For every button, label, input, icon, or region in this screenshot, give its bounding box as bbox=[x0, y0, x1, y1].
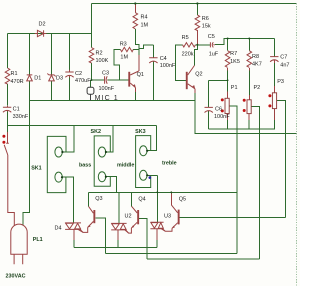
wire Q2 emitter rail bbox=[195, 93, 297, 134]
resistor R1 bbox=[5, 68, 10, 84]
wire SK2 pole1 up bbox=[106, 126, 113, 153]
svg-text:SK1: SK1 bbox=[31, 166, 42, 172]
node SK2 pole1 dot bbox=[105, 151, 107, 153]
wire R1 branch vertical bbox=[7, 34, 9, 69]
node C6 tap junction bbox=[227, 79, 229, 81]
svg-text:R1: R1 bbox=[11, 71, 18, 77]
wire Q3 base run bbox=[95, 218, 105, 254]
svg-text:1: 1 bbox=[114, 95, 118, 102]
capacitor C3 bbox=[105, 76, 108, 83]
diode D1 bbox=[27, 75, 33, 81]
svg-text:4n7: 4n7 bbox=[280, 63, 289, 69]
wire mic drop bbox=[90, 80, 92, 87]
wire SK2 pole2 down bbox=[106, 177, 117, 193]
svg-text:1K5: 1K5 bbox=[230, 59, 240, 65]
wire U2 bottom bbox=[117, 230, 119, 240]
svg-text:C2: C2 bbox=[75, 71, 82, 77]
wire C7 top bbox=[273, 39, 275, 57]
wire D3 branch vertical bbox=[51, 34, 53, 75]
wire C1 to lower rail bbox=[7, 112, 9, 126]
wire C3 to Q1 base bbox=[108, 79, 129, 81]
wire middle base rail bbox=[147, 258, 260, 260]
wire R2 to mic node bbox=[91, 63, 93, 80]
transistor Q1 bbox=[128, 72, 130, 87]
svg-text:SK3: SK3 bbox=[135, 129, 146, 135]
svg-text:U2: U2 bbox=[125, 213, 132, 219]
capacitor C2 bbox=[65, 70, 73, 78]
svg-text:D2: D2 bbox=[39, 22, 46, 28]
wire U3 top from SK3 bbox=[156, 175, 158, 222]
svg-text:P2: P2 bbox=[254, 85, 261, 91]
node R6 junction bbox=[196, 2, 198, 4]
transistor Q2 bbox=[186, 72, 188, 89]
wire left vertical from top rail bbox=[91, 4, 93, 34]
node U3 top junction bbox=[156, 191, 158, 193]
wire triac common rail bbox=[74, 247, 157, 249]
svg-text:PL1: PL1 bbox=[33, 237, 43, 243]
svg-text:R5: R5 bbox=[182, 35, 189, 41]
svg-text:C3: C3 bbox=[102, 70, 109, 76]
wire neutral rail bbox=[8, 125, 157, 127]
svg-text:Q4: Q4 bbox=[138, 197, 145, 203]
node blue dot bbox=[149, 176, 152, 179]
wire C6 bottom to rail bbox=[208, 111, 210, 129]
svg-text:R8: R8 bbox=[252, 54, 259, 60]
svg-text:330nF: 330nF bbox=[13, 114, 29, 120]
capacitor C5 bbox=[210, 42, 215, 47]
wire P3 wiper bbox=[277, 101, 286, 218]
svg-text:R3: R3 bbox=[120, 41, 127, 47]
wire Q4 collector up bbox=[131, 192, 133, 206]
wire U2 top bbox=[118, 192, 120, 223]
wire R4 top bbox=[134, 4, 136, 13]
wire SK3 pole2 down bbox=[147, 174, 157, 176]
wire R7 bottom to P1 bbox=[227, 68, 229, 70]
wire C2 to ground rail bbox=[69, 78, 71, 101]
wire Q4 base run bbox=[139, 218, 147, 259]
switch SK1 pole circles bbox=[55, 147, 62, 157]
wire R8 bottom to P2 bbox=[248, 68, 250, 70]
svg-text:D1: D1 bbox=[34, 75, 41, 81]
wire C6 top bbox=[208, 80, 210, 107]
wire mic node to C3 bbox=[92, 79, 105, 81]
svg-text:Q1: Q1 bbox=[137, 72, 144, 78]
switch SK3 pole circles bbox=[140, 146, 147, 156]
wire C5 out to filter rail bbox=[215, 39, 274, 45]
svg-text:middle: middle bbox=[117, 162, 134, 168]
svg-text:C4: C4 bbox=[160, 56, 167, 62]
svg-text:C1: C1 bbox=[13, 107, 20, 113]
triac U3 bbox=[150, 222, 165, 231]
svg-text:230VAC: 230VAC bbox=[6, 274, 26, 280]
svg-text:P1: P1 bbox=[231, 85, 238, 91]
triac U2 bbox=[111, 223, 128, 233]
wire pot bottom rail bbox=[209, 128, 275, 130]
node SK3 pole2 dot bbox=[146, 174, 148, 176]
svg-text:100nF: 100nF bbox=[160, 63, 176, 69]
node filter rail junction R8 bbox=[248, 38, 250, 40]
svg-text:R7: R7 bbox=[230, 51, 237, 57]
resistor R6 bbox=[195, 15, 200, 31]
wire R3 right to collector node bbox=[133, 49, 139, 51]
transistor Q3 bbox=[93, 210, 95, 223]
potentiometer P1 bbox=[225, 98, 229, 113]
node Q5 collector junction bbox=[170, 191, 172, 193]
node mic junction bbox=[91, 79, 93, 81]
wire switch feed left bbox=[7, 126, 9, 133]
svg-text:100K: 100K bbox=[96, 58, 109, 64]
svg-text:220k: 220k bbox=[182, 52, 194, 58]
wire C6 tap to R7 line bbox=[209, 79, 228, 81]
wire P2 wiper bbox=[251, 106, 260, 259]
wire R8 top bbox=[248, 39, 250, 51]
switch SK2 pole circles bbox=[98, 147, 105, 157]
wire P1 bottom bbox=[226, 114, 228, 121]
svg-text:470uF: 470uF bbox=[75, 78, 91, 84]
wire bass base rail bbox=[106, 253, 238, 255]
svg-text:R4: R4 bbox=[141, 14, 148, 20]
capacitor C1 bbox=[3, 106, 11, 113]
wire P2 bottom bbox=[248, 114, 250, 120]
wire Q5 collector up bbox=[170, 194, 172, 205]
svg-text:Q3: Q3 bbox=[95, 196, 102, 202]
wire SK1 pole2 to D4 bbox=[62, 177, 74, 223]
capacitor C7 bbox=[270, 56, 278, 61]
svg-text:1M: 1M bbox=[141, 22, 149, 28]
svg-text:MIC: MIC bbox=[95, 95, 111, 102]
wire R5 left to Q2 base bbox=[176, 45, 186, 81]
transistor Q5 bbox=[178, 210, 180, 225]
svg-text:C6: C6 bbox=[215, 107, 222, 113]
svg-text:treble: treble bbox=[162, 160, 177, 166]
resistor R2 bbox=[89, 48, 94, 63]
wire C2 branch vertical bbox=[69, 34, 71, 70]
transistor Q4 bbox=[137, 210, 139, 224]
resistor R3 bbox=[120, 47, 133, 51]
svg-text:1M: 1M bbox=[120, 54, 128, 60]
switch SK2 box bbox=[94, 136, 110, 186]
wire R5 right junction bbox=[196, 44, 211, 46]
svg-text:100nF: 100nF bbox=[214, 114, 230, 120]
wire R1 to C1 bbox=[7, 84, 9, 106]
svg-text:R2: R2 bbox=[96, 50, 103, 56]
wire D1 down long bbox=[23, 81, 30, 226]
plug PL1 bbox=[11, 224, 27, 264]
capacitor C4 bbox=[149, 58, 157, 63]
microphone MIC1 bbox=[87, 87, 94, 94]
wire P3 bottom bbox=[273, 109, 275, 120]
wire R4 bottom jog bbox=[135, 29, 139, 55]
node R4 junction bbox=[134, 2, 136, 4]
wire ground rail bbox=[30, 100, 196, 102]
potentiometer P3 bbox=[272, 93, 276, 109]
capacitor C6 bbox=[205, 107, 213, 112]
wire P1 wiper bbox=[229, 106, 237, 254]
svg-text:Q5: Q5 bbox=[179, 197, 186, 203]
wire top rail bbox=[92, 3, 297, 5]
wire SK1 pole1 up bbox=[62, 126, 74, 153]
node R5 C5 junction bbox=[196, 44, 198, 46]
wire C4 branch jog bbox=[139, 45, 154, 49]
svg-text:C5: C5 bbox=[208, 34, 215, 40]
wire mic to ground rail bbox=[90, 94, 92, 100]
svg-text:D3: D3 bbox=[56, 76, 63, 82]
svg-text:SK2: SK2 bbox=[91, 129, 102, 135]
wire D1 branch vertical bbox=[29, 34, 31, 75]
svg-text:bass: bass bbox=[79, 162, 91, 168]
wire C4 top bbox=[152, 45, 154, 58]
switch SK1 box bbox=[47, 136, 66, 192]
node filter rail junction R7 bbox=[227, 38, 229, 40]
svg-text:Q2: Q2 bbox=[195, 71, 202, 77]
wire right border bbox=[296, 4, 298, 286]
wire left dc rail bbox=[8, 33, 92, 35]
resistor R8 bbox=[247, 51, 252, 68]
wire channel supply rail bbox=[89, 191, 237, 193]
wire R3 left feedback bbox=[114, 50, 120, 81]
triac D4 bbox=[65, 223, 83, 233]
node SK3 pole1 dot bbox=[146, 150, 148, 152]
wire U3 bottom bbox=[156, 229, 158, 240]
node SK1 pole1 dot bbox=[61, 151, 63, 153]
mains switch SK1a blade bbox=[4, 132, 14, 226]
svg-text:U3: U3 bbox=[164, 214, 171, 220]
switch SK3 box bbox=[136, 136, 151, 188]
wire R6 top bbox=[196, 4, 198, 15]
wire neutral rail to SK3 pole1 bbox=[147, 126, 157, 151]
wire Q3 collector up bbox=[88, 192, 90, 206]
svg-text:D4: D4 bbox=[55, 226, 62, 232]
svg-text:1uF: 1uF bbox=[209, 52, 219, 58]
diode D2 bbox=[35, 30, 47, 36]
svg-text:100nF: 100nF bbox=[99, 86, 115, 92]
node SK1 pole2 dot bbox=[61, 176, 63, 178]
wire C7 bottom to P3 bbox=[273, 61, 275, 63]
mains switch contact dots bbox=[2, 135, 5, 138]
wire treble base rail bbox=[180, 216, 286, 218]
resistor R7 bbox=[225, 51, 230, 68]
svg-text:C7: C7 bbox=[280, 55, 287, 61]
wire D3 to ground rail bbox=[51, 81, 53, 101]
zener D3 bbox=[47, 73, 55, 81]
wire C4 to ground rail bbox=[152, 61, 154, 100]
wire D4 bottom bbox=[73, 229, 75, 240]
resistor R4 bbox=[133, 13, 138, 29]
svg-text:P3: P3 bbox=[277, 79, 284, 85]
svg-text:15k: 15k bbox=[202, 23, 211, 29]
node SK2 pole2 dot bbox=[105, 176, 107, 178]
wire R6 bottom bbox=[196, 30, 198, 45]
wire Q2 collector jog bbox=[194, 45, 197, 66]
wire R7 top bbox=[227, 39, 229, 51]
resistor R5 bbox=[183, 43, 196, 47]
potentiometer P2 bbox=[247, 100, 251, 114]
svg-text:470R: 470R bbox=[11, 79, 24, 85]
wire R2 branch vertical bbox=[91, 34, 93, 48]
svg-text:R6: R6 bbox=[202, 16, 209, 22]
svg-text:4K7: 4K7 bbox=[252, 62, 262, 68]
